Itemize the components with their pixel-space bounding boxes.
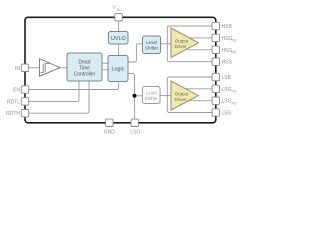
- wire EN to Logic: [29, 82, 119, 90]
- terminal HSB: [212, 22, 219, 29]
- svg-text:LSO: LSO: [130, 130, 140, 136]
- wire Logic to high-side Level Shifter: [128, 44, 143, 62]
- high-side Output Driver: [171, 28, 199, 58]
- wire RDTH to DTC: [29, 81, 89, 113]
- terminal LSO: [131, 119, 138, 126]
- svg-text:HSS: HSS: [222, 60, 233, 66]
- svg-text:Level: Level: [146, 40, 157, 45]
- svg-text:Controller: Controller: [74, 71, 96, 77]
- terminal IN: [21, 64, 28, 71]
- terminal LSS: [212, 109, 219, 116]
- wire RDTL to DTC: [29, 81, 79, 101]
- terminal RDTH: [21, 110, 28, 117]
- terminal LSB: [212, 73, 219, 80]
- Logic block: [108, 56, 128, 82]
- svg-text:HSB: HSB: [222, 24, 233, 30]
- wire UVLO to Logic: [118, 44, 120, 56]
- svg-text:UVLO: UVLO: [111, 36, 126, 42]
- svg-text:Logic: Logic: [112, 66, 125, 72]
- svg-text:Driver: Driver: [175, 97, 188, 102]
- terminal RDTL: [21, 98, 28, 105]
- svg-text:Level: Level: [146, 91, 157, 96]
- svg-text:PU: PU: [232, 89, 237, 93]
- svg-text:Output: Output: [175, 39, 189, 44]
- low-side Output Driver: [171, 81, 199, 110]
- UVLO block: [109, 32, 129, 45]
- wire driver output to LSG_PU: [185, 88, 213, 90]
- wire HSB bus loop to HSS: [167, 26, 212, 62]
- wire buffer to Dead Time Controller: [59, 67, 68, 69]
- input buffer (schmitt trigger): [40, 59, 61, 77]
- terminal EN: [21, 86, 28, 93]
- terminal VDD: [115, 14, 122, 21]
- wire Logic to low-side node and LSO: [128, 73, 135, 119]
- Dead Time Controller block: [67, 53, 102, 81]
- svg-text:LSS: LSS: [222, 111, 232, 117]
- terminal HSG_PD: [212, 46, 219, 53]
- svg-text:Shifter: Shifter: [145, 96, 159, 101]
- terminal LSG_PU: [212, 85, 219, 92]
- svg-text:DD: DD: [117, 8, 123, 12]
- wire IN to buffer: [29, 67, 40, 69]
- svg-text:GND: GND: [104, 130, 116, 136]
- svg-text:IN: IN: [15, 66, 20, 72]
- high-side Level Shifter block: [143, 36, 161, 54]
- junction node on LSO line: [133, 94, 137, 98]
- wire driver output to HSG_PD: [184, 49, 212, 51]
- IC boundary box: [25, 17, 216, 123]
- wire LSB bus loop to LSS: [167, 77, 212, 113]
- svg-text:LSB: LSB: [222, 75, 232, 81]
- wire driver output to LSG_PD: [188, 100, 212, 102]
- svg-text:PU: PU: [232, 39, 237, 43]
- svg-text:PD: PD: [232, 50, 237, 54]
- wire DTC to Logic upper: [102, 62, 108, 64]
- wire driver output to HSG_PU: [188, 37, 212, 39]
- svg-text:EN: EN: [13, 88, 20, 94]
- terminal LSG_PD: [212, 97, 219, 104]
- svg-text:Output: Output: [175, 91, 189, 96]
- wire low Level Shifter to Output Driver: [160, 95, 171, 97]
- svg-text:PD: PD: [232, 101, 237, 105]
- svg-text:Driver: Driver: [175, 44, 188, 49]
- wire DTC to Logic lower: [102, 69, 108, 71]
- wire VDD to UVLO: [118, 20, 120, 32]
- terminal GND: [106, 119, 113, 126]
- wire node to low-side Level Shifter: [135, 95, 143, 97]
- terminal HSG_PU: [212, 34, 219, 41]
- svg-text:Shifter: Shifter: [145, 46, 159, 51]
- low-side Level Shifter block (inactive/gray): [143, 87, 161, 104]
- wire high Level Shifter to Output Driver: [161, 43, 172, 45]
- svg-text:RDTH: RDTH: [6, 111, 20, 117]
- svg-text:LSG: LSG: [222, 99, 232, 105]
- terminal HSS: [212, 58, 219, 65]
- svg-text:RDTL: RDTL: [7, 99, 20, 105]
- svg-text:LSG: LSG: [222, 87, 232, 93]
